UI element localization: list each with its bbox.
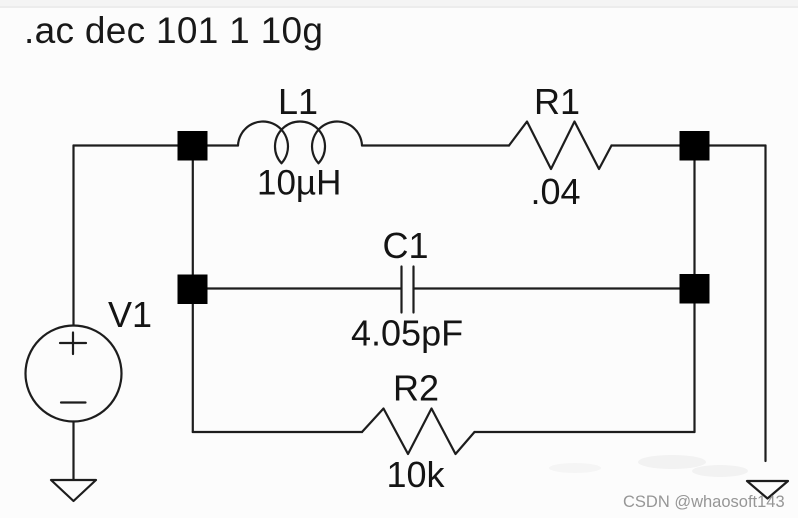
wire bottom right horizontal xyxy=(475,431,695,433)
wire C1 row left xyxy=(206,287,401,289)
svg-text:R2: R2 xyxy=(393,368,439,409)
capacitor C1 xyxy=(402,267,414,313)
ground left xyxy=(51,480,96,501)
svg-text:.04: .04 xyxy=(531,171,581,212)
wire top-left horizontal xyxy=(74,144,239,146)
ground right xyxy=(747,481,788,499)
svg-text:10k: 10k xyxy=(387,454,446,495)
wire C1 row right xyxy=(414,287,682,289)
svg-text:CSDN @whaosoft143: CSDN @whaosoft143 xyxy=(623,493,785,511)
node D (right middle junction) xyxy=(680,274,710,304)
wire L1 to R1 xyxy=(362,144,509,146)
svg-text:V1: V1 xyxy=(108,294,152,335)
svg-text:L1: L1 xyxy=(278,81,318,122)
svg-text:4.05pF: 4.05pF xyxy=(351,313,463,354)
resistor R2 xyxy=(362,409,475,455)
svg-text:.ac dec 101 1 10g: .ac dec 101 1 10g xyxy=(24,10,323,51)
wire node3 to node4 vertical xyxy=(693,160,695,274)
wire bottom left horizontal xyxy=(193,431,362,433)
V1 minus sign xyxy=(61,401,86,403)
inductor L1 xyxy=(238,121,362,163)
voltage source V1 xyxy=(26,326,122,422)
wire right vertical xyxy=(764,146,766,462)
node A (top-left junction) xyxy=(178,131,208,161)
svg-text:R1: R1 xyxy=(534,81,580,122)
watermark smudge xyxy=(549,455,748,477)
svg-text:C1: C1 xyxy=(383,225,429,266)
wire node4 down xyxy=(693,302,695,432)
node C (top-right junction) xyxy=(680,131,710,161)
wire R1 to node xyxy=(612,144,766,146)
wire V1 to ground xyxy=(72,422,74,480)
node B (left middle junction) xyxy=(178,275,208,305)
wire node2 down xyxy=(192,303,194,432)
wire node1 to node2 vertical xyxy=(192,160,194,276)
svg-text:10µH: 10µH xyxy=(257,164,341,203)
resistor R1 xyxy=(509,122,612,170)
V1 plus sign xyxy=(60,333,86,355)
wire top-left vertical xyxy=(72,146,74,326)
